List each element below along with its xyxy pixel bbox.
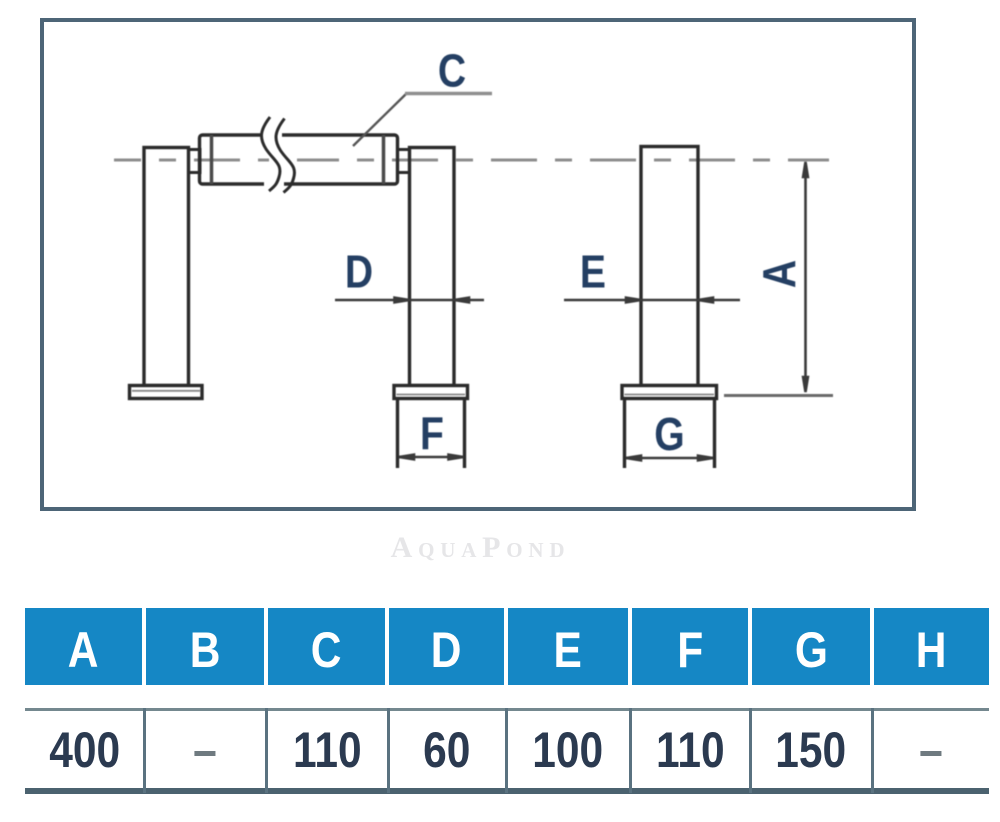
dimension G arrow	[626, 456, 713, 461]
value row top line	[25, 708, 989, 711]
value cell C = 110	[266, 712, 388, 788]
right axle bracket	[398, 150, 410, 173]
white fills of parts	[144, 135, 698, 386]
centerline (dash-dot axis)	[114, 159, 829, 162]
value row separator B|C	[265, 708, 268, 793]
svg-text:A: A	[754, 260, 806, 288]
watermark AquaPond	[2, 531, 959, 565]
value cell B = dash	[144, 712, 266, 788]
value cell F = 110	[630, 712, 750, 788]
table header cell D	[389, 608, 504, 685]
roller cap line right	[382, 135, 386, 184]
value row separator G|H	[871, 708, 874, 793]
svg-text:G: G	[654, 409, 684, 461]
C leader line	[353, 94, 407, 147]
table header cell F	[632, 608, 748, 685]
roller body C	[200, 135, 398, 184]
datum line at base level	[724, 394, 833, 397]
break squiggle 2	[276, 119, 294, 193]
left base flange	[130, 386, 203, 399]
dimension F arrow	[399, 455, 464, 460]
dimension D line	[335, 298, 484, 303]
svg-text:F: F	[420, 408, 444, 460]
standalone base flange	[622, 386, 717, 399]
value row separator A|B	[143, 708, 146, 793]
middle post	[410, 148, 455, 386]
dimension A line	[803, 162, 808, 392]
break gap patches	[262, 129, 297, 190]
value row separator E|F	[629, 708, 632, 793]
table header cell A	[25, 608, 142, 685]
middle base flange	[394, 386, 468, 399]
table header cell G	[752, 608, 870, 685]
value row separator F|G	[749, 708, 752, 793]
value cell G = 150	[750, 712, 872, 788]
svg-text:C: C	[438, 46, 466, 98]
value cell D = 60	[388, 712, 506, 788]
svg-text:D: D	[345, 247, 373, 299]
svg-text:E: E	[580, 247, 606, 299]
value cell E = 100	[506, 712, 630, 788]
value row separator D|E	[505, 708, 508, 793]
value row separator C|D	[387, 708, 390, 793]
left post	[144, 148, 189, 386]
value row bottom border	[25, 788, 989, 794]
table header cell C	[268, 608, 385, 685]
value cell A = 400	[25, 712, 144, 788]
standalone post	[641, 147, 698, 386]
G anchor box sides	[623, 399, 626, 469]
drawing frame	[40, 18, 916, 511]
dimension E line	[564, 298, 740, 303]
table header cell B	[146, 608, 264, 685]
break squiggle 1	[261, 117, 279, 191]
table header cell H	[874, 608, 989, 685]
roller cap line left	[210, 135, 214, 184]
table header cell E	[508, 608, 628, 685]
left axle bracket	[189, 150, 201, 173]
F anchor box sides	[396, 399, 399, 469]
value cell H = dash	[872, 712, 989, 788]
